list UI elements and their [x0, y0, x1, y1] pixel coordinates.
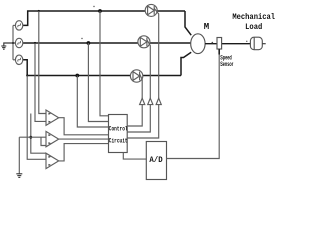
wire: U2 upper input line from ground stem	[19, 136, 46, 138]
svg-text:Circuit: Circuit	[109, 137, 128, 145]
wire: gate drive to SCR Q3	[127, 98, 142, 126]
wire: motor shaft to load	[205, 43, 250, 45]
wire: ground stem down from U2 upper line	[18, 137, 20, 173]
node on line 1 at phase-1 tap	[38, 10, 40, 12]
gate arrow for Q2	[148, 98, 153, 104]
load inner bar	[253, 37, 255, 49]
A/D block	[146, 142, 166, 180]
AC source V2	[15, 38, 22, 47]
node speck near J2	[81, 38, 82, 39]
wire: phase-3 tap down to op-amp U3 lower input	[27, 76, 46, 160]
wire: gate drive to SCR Q1	[127, 98, 159, 138]
wire: phase line 1 (top)	[23, 11, 191, 35]
control circuit block	[109, 115, 128, 153]
wire: phase-2 tap down to op-amp U1 lower input	[35, 43, 46, 121]
SCR Q2	[138, 36, 150, 98]
wire: bus stub to source V3	[13, 59, 15, 61]
SCR Q3	[130, 70, 142, 98]
svg-text:Control: Control	[109, 125, 128, 133]
node on line 2 at phase-2 tap	[34, 42, 36, 44]
svg-text:Load: Load	[245, 23, 262, 32]
gate arrow for Q1	[156, 98, 161, 104]
wire: neutral line from ground to source bus	[4, 43, 16, 46]
mechanical load symbol	[250, 37, 262, 50]
node J3 on line 3	[75, 74, 79, 78]
node: junction on branch vertical at U2 upper line	[29, 136, 32, 139]
gate arrow for Q3	[140, 98, 145, 104]
wire: U2 output to control circuit	[59, 138, 109, 140]
node speck near load	[246, 41, 247, 42]
wire: gate drive to SCR Q2	[127, 98, 150, 132]
op-amp U1	[46, 110, 59, 125]
motor M1	[191, 34, 205, 54]
wire: U3 output to control circuit	[59, 144, 109, 161]
speed sensor block	[217, 38, 222, 50]
wire: branch vertical from U1 upper line down to U3 upper input	[31, 114, 46, 154]
node speck near J1	[93, 6, 94, 7]
svg-text:Sensor: Sensor	[220, 61, 233, 68]
wire: bus stub to source V1	[13, 24, 15, 26]
wire: load right stub	[262, 43, 265, 45]
wire: phase line 2 (middle)	[23, 42, 191, 44]
node speck on motor shaft	[212, 42, 214, 44]
svg-text:M: M	[204, 22, 209, 32]
AC source V1	[15, 21, 22, 30]
node J1 on line 1	[98, 9, 102, 13]
ground G1 (source neutral)	[1, 46, 6, 49]
node J2 on line 2	[87, 41, 91, 45]
wire: phase-1 tap down to op-amp U1 upper input	[39, 11, 46, 114]
op-amp U3	[46, 153, 59, 168]
wire: J3 vertical to control circuit	[77, 76, 108, 128]
SCR Q1	[145, 4, 159, 98]
wire: sensor output dark segment	[218, 49, 220, 55]
wire: phase line 3 (bottom)	[23, 52, 191, 75]
ground G2 (op-amp reference)	[16, 174, 22, 178]
wire: U1 output to control circuit	[59, 118, 109, 135]
wire: J1 vertical to control circuit	[100, 11, 109, 116]
wire: source bus vertical	[12, 25, 14, 59]
op-amp U2	[46, 131, 59, 146]
wire: control circuit to A/D	[123, 153, 146, 160]
wire: jog to U2 lower input	[41, 137, 46, 145]
AC source V3	[15, 55, 22, 64]
wire: J2 vertical to control circuit	[88, 43, 108, 122]
node: bus-neutral junction	[12, 42, 14, 44]
svg-text:Mechanical: Mechanical	[232, 14, 275, 23]
svg-text:A/D: A/D	[149, 157, 163, 165]
node on line 3 at phase-3 tap	[26, 74, 28, 76]
label Speed Sensor	[220, 55, 233, 69]
wire: A/D to speed sensor	[167, 49, 220, 159]
